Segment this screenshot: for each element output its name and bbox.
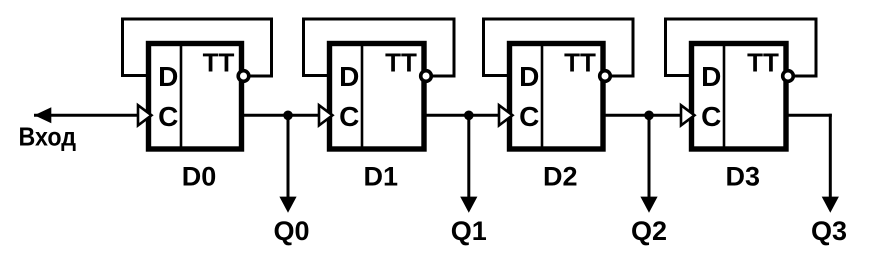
svg-text:D2: D2 <box>543 162 578 192</box>
svg-text:D3: D3 <box>725 162 760 192</box>
svg-text:C: C <box>158 101 178 132</box>
svg-text:ТТ: ТТ <box>203 48 235 78</box>
svg-text:C: C <box>339 101 359 132</box>
svg-text:D1: D1 <box>363 162 398 192</box>
svg-text:Вход: Вход <box>19 121 77 151</box>
svg-text:D: D <box>519 61 539 92</box>
svg-text:D0: D0 <box>182 162 217 192</box>
svg-text:ТТ: ТТ <box>564 48 596 78</box>
svg-text:ТТ: ТТ <box>385 48 417 78</box>
svg-text:Q3: Q3 <box>811 216 847 246</box>
svg-text:Q2: Q2 <box>631 216 667 246</box>
svg-text:D: D <box>701 61 721 92</box>
svg-text:C: C <box>519 101 539 132</box>
svg-text:D: D <box>158 61 178 92</box>
svg-text:C: C <box>701 101 721 132</box>
svg-text:ТТ: ТТ <box>747 48 779 78</box>
svg-text:D: D <box>339 61 359 92</box>
svg-text:Q1: Q1 <box>451 216 487 246</box>
svg-text:Q0: Q0 <box>273 216 309 246</box>
